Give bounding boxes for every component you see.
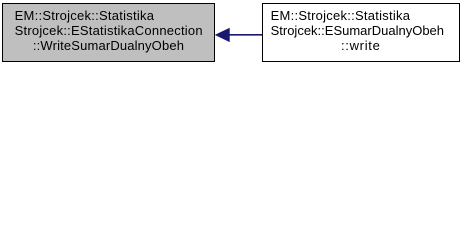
node: EM::Strojcek::ESumarDualnyObeh::write [262,3,460,62]
node: EM::Strojcek::EStatistikaConnection::WriteSumarDualnyObeh (current node, grey fill) [2,3,215,62]
arrowhead [216,29,229,42]
wire [228,34,262,36]
edge arrow (navy, caller -> callee, pointing left) [0,0,464,67]
